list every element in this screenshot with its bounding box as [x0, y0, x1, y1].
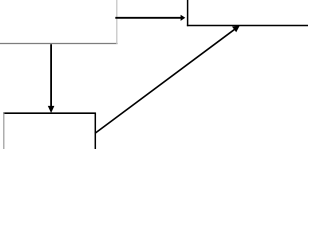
- box top-right bottom edge: [187, 25, 308, 27]
- box bottom-left right edge: [94, 113, 96, 149]
- wire: horizontal arrow shaft from top-left box to top-right box: [115, 17, 181, 19]
- box top-right (cropped at top/right) left edge: [187, 0, 189, 26]
- wire: diagonal arrow shaft from bottom-left box to top-right box: [95, 29, 236, 134]
- box top-left (cropped at top/left) bottom edge: [0, 43, 118, 45]
- box bottom-left left edge: [3, 113, 5, 149]
- vertical arrow head: [48, 106, 55, 113]
- diagonal arrow head: [232, 25, 240, 32]
- wire: vertical arrow shaft from top-left box to bottom-left box: [50, 44, 52, 107]
- box top-left right edge: [116, 0, 118, 44]
- box bottom-left (cropped at bottom) top edge: [3, 112, 96, 114]
- horizontal arrow head: [181, 15, 186, 21]
